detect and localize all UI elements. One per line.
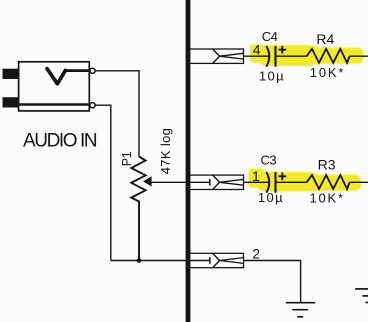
board edge bar — [186, 0, 191, 322]
svg-text:P1: P1 — [120, 151, 134, 166]
partial ground at right edge — [355, 289, 368, 303]
svg-text:R4: R4 — [316, 31, 334, 47]
svg-text:4: 4 — [253, 41, 261, 57]
wire ground rail to pin 2 — [111, 260, 210, 262]
svg-text:C4: C4 — [262, 29, 278, 44]
connector J1 audio input box — [19, 62, 90, 111]
potentiometer P1 zigzag — [131, 157, 145, 261]
wire C4 to R4 — [277, 55, 307, 57]
ground — [286, 303, 315, 317]
wire pin4 to C4 — [244, 55, 270, 57]
plug top — [3, 69, 19, 79]
wire pin2 to ground — [244, 261, 301, 303]
wire pin1 to C3 — [244, 181, 270, 183]
terminal circle bottom — [90, 103, 95, 108]
svg-text:2: 2 — [252, 246, 260, 262]
wire R3 to edge — [350, 181, 368, 183]
svg-text:10K*: 10K* — [310, 190, 345, 205]
pin 4 connector — [189, 49, 243, 63]
svg-text:10µ: 10µ — [258, 190, 284, 205]
pin 1 connector — [189, 175, 243, 189]
sleeve contact bar — [17, 103, 91, 106]
highlighter band row C4/R4 — [250, 44, 364, 66]
capacitor C3 — [266, 172, 286, 193]
highlighter band row C3/R3 — [249, 169, 362, 192]
svg-text:C3: C3 — [260, 152, 276, 167]
plug bottom — [3, 97, 19, 107]
tip contact V — [47, 69, 65, 84]
resistor R4 — [307, 49, 350, 63]
wire bottom jack to ground rail — [95, 105, 111, 260]
svg-text:47K log: 47K log — [158, 128, 173, 175]
wire top jack to pot — [95, 71, 139, 157]
wire C3 to R3 — [277, 181, 307, 183]
resistor R3 — [307, 175, 350, 189]
terminal circle top — [90, 68, 95, 73]
svg-text:10µ: 10µ — [259, 69, 285, 84]
junction dot — [137, 258, 142, 263]
tip contact bar — [65, 69, 91, 72]
pin 2 connector — [189, 253, 243, 267]
svg-text:AUDIO IN: AUDIO IN — [23, 131, 97, 152]
svg-text:R3: R3 — [318, 157, 336, 173]
capacitor C4 — [266, 46, 286, 67]
svg-text:10K*: 10K* — [310, 65, 345, 80]
wire R4 to edge — [350, 55, 368, 57]
wiper wire to pin 1 — [152, 181, 210, 183]
wiper arrow — [143, 176, 152, 186]
